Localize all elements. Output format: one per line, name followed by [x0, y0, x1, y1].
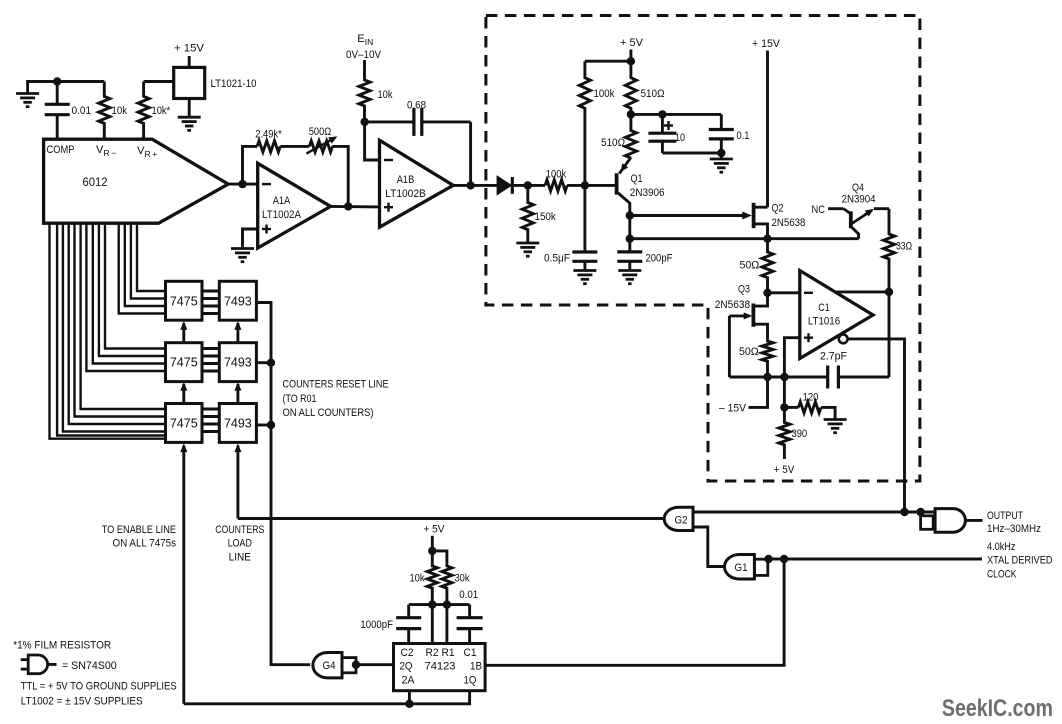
- svg-text:74123: 74123: [425, 661, 456, 673]
- svg-text:COMP: COMP: [47, 144, 75, 156]
- svg-text:C1: C1: [818, 302, 830, 314]
- svg-text:4.0kHz: 4.0kHz: [987, 541, 1016, 553]
- svg-text:510Ω: 510Ω: [641, 88, 665, 100]
- svg-text:(TO R01: (TO R01: [283, 393, 317, 405]
- svg-text:1000pF: 1000pF: [360, 619, 393, 631]
- svg-text:7475: 7475: [170, 294, 198, 308]
- svg-text:10k: 10k: [112, 105, 128, 117]
- svg-text:2N5638: 2N5638: [715, 299, 750, 311]
- svg-text:10k: 10k: [378, 89, 393, 101]
- svg-text:C2: C2: [401, 647, 414, 659]
- svg-text:0.01: 0.01: [72, 105, 92, 117]
- svg-text:SeekIC.com: SeekIC.com: [942, 695, 1053, 722]
- svg-text:G4: G4: [323, 660, 336, 672]
- svg-text:7493: 7493: [224, 416, 252, 430]
- svg-text:6012: 6012: [83, 175, 108, 189]
- svg-text:+ 5V: + 5V: [774, 464, 795, 476]
- svg-text:NC: NC: [812, 204, 826, 216]
- svg-text:2.7pF: 2.7pF: [820, 351, 847, 363]
- svg-text:LT1002B: LT1002B: [385, 188, 426, 200]
- svg-text:LT1021-10: LT1021-10: [211, 78, 257, 90]
- svg-text:+ 15V: + 15V: [752, 38, 780, 50]
- svg-text:LT1002A: LT1002A: [262, 209, 301, 221]
- svg-text:– 15V: – 15V: [719, 403, 746, 415]
- svg-text:Q1: Q1: [631, 173, 643, 185]
- svg-text:TO ENABLE LINE: TO ENABLE LINE: [102, 524, 176, 536]
- svg-text:50Ω: 50Ω: [740, 260, 760, 272]
- svg-text:+ 15V: + 15V: [174, 43, 205, 55]
- svg-text:1B: 1B: [470, 661, 482, 673]
- svg-text:390: 390: [792, 428, 808, 440]
- svg-text:1Q: 1Q: [464, 675, 477, 687]
- svg-text:G1: G1: [735, 562, 748, 574]
- svg-text:30k: 30k: [455, 573, 470, 585]
- svg-text:7493: 7493: [224, 356, 252, 370]
- svg-text:7475: 7475: [170, 416, 198, 430]
- svg-text:R2: R2: [426, 647, 439, 659]
- svg-text:2A: 2A: [402, 675, 416, 687]
- svg-text:1Hz–30MHz: 1Hz–30MHz: [987, 523, 1041, 535]
- svg-text:10k*: 10k*: [152, 105, 171, 117]
- svg-text:100k: 100k: [546, 169, 567, 181]
- svg-text:100k: 100k: [594, 88, 615, 100]
- svg-text:R1: R1: [442, 647, 455, 659]
- svg-text:Q2: Q2: [772, 203, 784, 215]
- svg-text:2N5638: 2N5638: [772, 217, 806, 229]
- svg-text:A1B: A1B: [397, 174, 415, 186]
- svg-text:ON ALL COUNTERS): ON ALL COUNTERS): [283, 407, 374, 419]
- svg-text:0V–10V: 0V–10V: [346, 49, 381, 61]
- svg-text:C1: C1: [464, 647, 477, 659]
- svg-text:2N3906: 2N3906: [630, 187, 665, 199]
- svg-text:OUTPUT: OUTPUT: [987, 510, 1023, 522]
- svg-text:LINE: LINE: [229, 552, 251, 564]
- svg-text:ON ALL 7475s: ON ALL 7475s: [113, 538, 177, 550]
- svg-text:+ 5V: + 5V: [424, 523, 445, 535]
- svg-text:2Q: 2Q: [400, 661, 413, 673]
- svg-text:= SN74S00: = SN74S00: [62, 660, 117, 672]
- svg-text:COUNTERS RESET LINE: COUNTERS RESET LINE: [283, 379, 389, 391]
- svg-text:LT1002 = ± 15V SUPPLIES: LT1002 = ± 15V SUPPLIES: [21, 695, 143, 707]
- svg-text:+ 5V: + 5V: [620, 37, 644, 49]
- svg-text:COUNTERS: COUNTERS: [215, 524, 264, 536]
- svg-text:XTAL DERIVED: XTAL DERIVED: [987, 555, 1053, 567]
- svg-text:0.5μF: 0.5μF: [544, 252, 570, 264]
- svg-text:120: 120: [803, 392, 819, 404]
- svg-text:A1A: A1A: [273, 195, 291, 207]
- svg-text:TTL = + 5V TO GROUND SUPPLIES: TTL = + 5V TO GROUND SUPPLIES: [21, 680, 177, 692]
- svg-text:0.68: 0.68: [407, 100, 426, 112]
- svg-text:7493: 7493: [224, 294, 252, 308]
- svg-text:2N3904: 2N3904: [842, 194, 876, 206]
- svg-text:CLOCK: CLOCK: [987, 568, 1017, 580]
- svg-text:200pF: 200pF: [646, 252, 673, 264]
- svg-text:G2: G2: [675, 514, 688, 526]
- svg-text:*1% FILM RESISTOR: *1% FILM RESISTOR: [13, 639, 111, 651]
- svg-text:10: 10: [675, 132, 685, 144]
- svg-text:LT1016: LT1016: [808, 316, 840, 328]
- svg-text:0.01: 0.01: [459, 589, 478, 601]
- svg-text:Q3: Q3: [738, 283, 750, 295]
- svg-text:10k: 10k: [410, 573, 425, 585]
- svg-text:LOAD: LOAD: [228, 538, 252, 550]
- svg-text:33Ω: 33Ω: [896, 241, 912, 253]
- svg-text:510Ω: 510Ω: [601, 137, 625, 149]
- svg-text:150k: 150k: [535, 211, 557, 223]
- svg-text:2.49k*: 2.49k*: [255, 129, 282, 141]
- svg-text:7475: 7475: [170, 356, 198, 370]
- svg-text:0.1: 0.1: [737, 130, 750, 142]
- svg-text:50Ω: 50Ω: [739, 346, 759, 358]
- svg-text:500Ω: 500Ω: [309, 126, 332, 138]
- svg-text:Q4: Q4: [852, 182, 864, 194]
